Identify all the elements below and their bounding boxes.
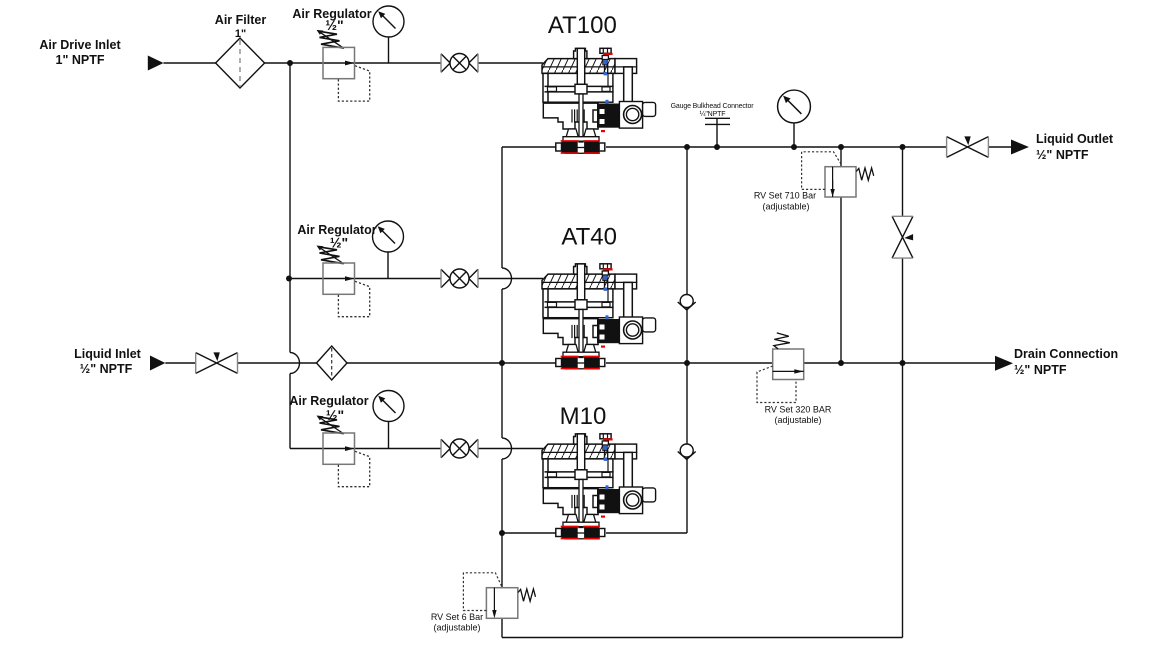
svg-text:(adjustable): (adjustable) (774, 415, 821, 425)
svg-text:RV Set 6 Bar: RV Set 6 Bar (431, 612, 483, 622)
svg-text:½": ½" (326, 407, 344, 423)
svg-text:Air Filter: Air Filter (215, 13, 267, 27)
svg-text:Air Regulator: Air Regulator (289, 394, 368, 408)
svg-text:½": ½" (330, 235, 348, 251)
svg-text:AT100: AT100 (548, 12, 617, 39)
svg-text:1" NPTF: 1" NPTF (56, 53, 105, 67)
svg-text:½": ½" (325, 17, 343, 33)
svg-text:Drain Connection: Drain Connection (1014, 347, 1118, 361)
svg-text:½" NPTF: ½" NPTF (1014, 363, 1067, 377)
svg-text:RV Set 710 Bar: RV Set 710 Bar (754, 191, 816, 201)
svg-text:Air Drive Inlet: Air Drive Inlet (39, 38, 121, 52)
svg-text:¼"NPTF: ¼"NPTF (700, 111, 726, 118)
svg-text:AT40: AT40 (561, 224, 617, 251)
svg-text:Liquid Outlet: Liquid Outlet (1036, 132, 1114, 146)
svg-text:(adjustable): (adjustable) (762, 202, 809, 212)
svg-text:½" NPTF: ½" NPTF (80, 362, 133, 376)
svg-text:1": 1" (235, 28, 246, 40)
svg-text:Gauge Bulkhead Connector: Gauge Bulkhead Connector (671, 103, 755, 110)
svg-text:½" NPTF: ½" NPTF (1036, 148, 1089, 162)
svg-text:(adjustable): (adjustable) (433, 623, 480, 633)
svg-text:Liquid Inlet: Liquid Inlet (74, 347, 141, 361)
svg-text:RV Set 320 BAR: RV Set 320 BAR (765, 405, 832, 415)
svg-text:M10: M10 (560, 403, 607, 430)
